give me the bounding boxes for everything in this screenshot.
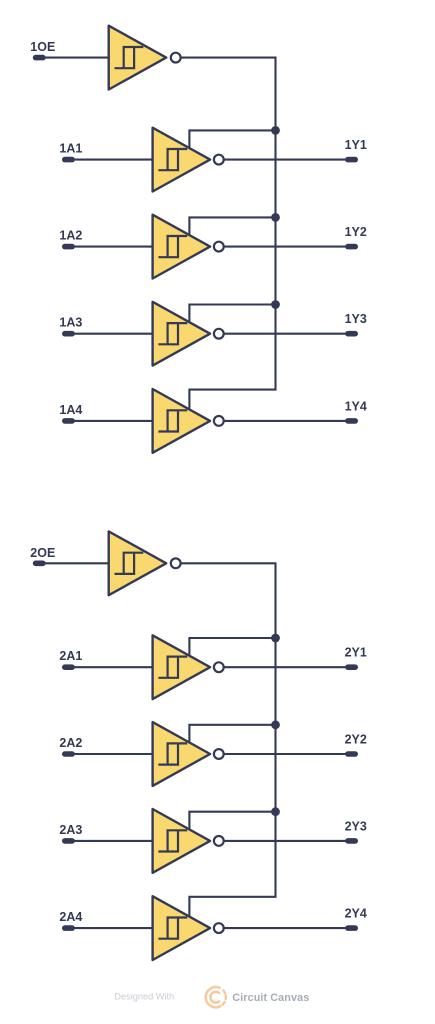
svg-text:Designed With: Designed With — [114, 992, 174, 1002]
output bubble 1A3 — [214, 329, 224, 339]
wire 2A3 input — [68, 840, 154, 842]
wire 1Y3 output — [224, 333, 352, 335]
wire enable 1A1 — [189, 130, 275, 149]
wire 1OE enable bus — [181, 58, 276, 411]
output bubble 2OE — [171, 558, 181, 568]
svg-text:1A4: 1A4 — [59, 403, 82, 417]
svg-text:2Y4: 2Y4 — [345, 907, 367, 921]
wire 1A3 input — [68, 333, 154, 335]
output bubble 2A2 — [214, 749, 224, 759]
schmitt inverter 1OE — [109, 26, 167, 90]
svg-text:2Y3: 2Y3 — [345, 819, 367, 833]
schmitt inverter 2A1 — [153, 635, 211, 699]
wire 2OE input — [39, 562, 111, 564]
wire 1A4 input — [68, 420, 154, 422]
wire enable 2A2 — [189, 725, 275, 744]
svg-text:2Y2: 2Y2 — [345, 732, 367, 746]
svg-text:2A3: 2A3 — [59, 823, 82, 837]
svg-text:1Y2: 1Y2 — [345, 225, 367, 239]
svg-text:2OE: 2OE — [30, 546, 55, 560]
wire 2A2 input — [68, 753, 154, 755]
schmitt inverter 1A2 — [153, 215, 211, 279]
terminal 1A2 — [62, 244, 75, 250]
junction enable 2A1 — [271, 634, 280, 643]
svg-text:Circuit Canvas: Circuit Canvas — [232, 992, 309, 1004]
svg-text:1A2: 1A2 — [59, 229, 82, 243]
wire enable 2A3 — [189, 812, 275, 831]
terminal 1A4 — [62, 418, 75, 424]
junction enable 2A2 — [271, 720, 280, 729]
wire 2A1 input — [68, 666, 154, 668]
terminal 2Y4 — [345, 925, 358, 931]
wire 1A2 input — [68, 246, 154, 248]
wire 2OE enable bus — [181, 563, 276, 918]
schmitt inverter 1A3 — [153, 302, 211, 366]
svg-text:1Y4: 1Y4 — [345, 399, 367, 413]
wire 1Y2 output — [224, 246, 352, 248]
schmitt inverter 1A4 — [153, 389, 211, 453]
wire 1OE input — [39, 57, 111, 59]
terminal 1Y3 — [345, 331, 358, 337]
svg-text:1A3: 1A3 — [59, 316, 82, 330]
svg-text:1Y1: 1Y1 — [345, 138, 367, 152]
terminal 2Y2 — [345, 751, 358, 757]
footer logo: Circuit Canvas C mark — [206, 987, 226, 1007]
output bubble 1OE — [171, 53, 181, 63]
svg-text:1A1: 1A1 — [59, 142, 82, 156]
terminal 2A3 — [62, 838, 75, 844]
wire 2Y1 output — [224, 666, 352, 668]
schmitt inverter 2A3 — [153, 809, 211, 873]
wire 2Y3 output — [224, 840, 352, 842]
terminal 1Y1 — [345, 157, 358, 163]
svg-text:2A4: 2A4 — [59, 910, 82, 924]
terminal 1OE — [33, 55, 46, 61]
wire enable 1A2 — [189, 217, 275, 236]
terminal 1Y4 — [345, 418, 358, 424]
output bubble 2A1 — [214, 662, 224, 672]
terminal 1A3 — [62, 331, 75, 337]
schmitt inverter 2A4 — [153, 896, 211, 960]
svg-text:1Y3: 1Y3 — [345, 312, 367, 326]
wire 2A4 input — [68, 927, 154, 929]
schmitt inverter 2OE — [109, 531, 167, 595]
terminal 1A1 — [62, 157, 75, 163]
output bubble 1A2 — [214, 242, 224, 252]
schmitt inverter 2A2 — [153, 722, 211, 786]
junction enable 2A3 — [271, 807, 280, 816]
terminal 2A1 — [62, 664, 75, 670]
svg-text:2Y1: 2Y1 — [345, 646, 367, 660]
terminal 2Y1 — [345, 664, 358, 670]
terminal 1Y2 — [345, 244, 358, 250]
terminal 2A2 — [62, 751, 75, 757]
output bubble 1A1 — [214, 155, 224, 165]
junction enable 1A2 — [271, 213, 280, 222]
junction enable 1A1 — [271, 126, 280, 135]
svg-text:2A1: 2A1 — [59, 649, 82, 663]
wire 2Y4 output — [224, 927, 352, 929]
svg-text:2A2: 2A2 — [59, 736, 82, 750]
terminal 2OE — [33, 561, 46, 567]
terminal 2Y3 — [345, 838, 358, 844]
wire enable 2A1 — [189, 638, 275, 657]
svg-text:1OE: 1OE — [30, 40, 55, 54]
wire enable 1A3 — [189, 305, 275, 324]
wire 1Y4 output — [224, 420, 352, 422]
wire 2Y2 output — [224, 753, 352, 755]
junction enable 1A3 — [271, 300, 280, 309]
output bubble 1A4 — [214, 416, 224, 426]
terminal 2A4 — [62, 925, 75, 931]
output bubble 2A4 — [214, 923, 224, 933]
schmitt inverter 1A1 — [153, 128, 211, 192]
wire 1A1 input — [68, 159, 154, 161]
wire 1Y1 output — [224, 159, 352, 161]
output bubble 2A3 — [214, 836, 224, 846]
